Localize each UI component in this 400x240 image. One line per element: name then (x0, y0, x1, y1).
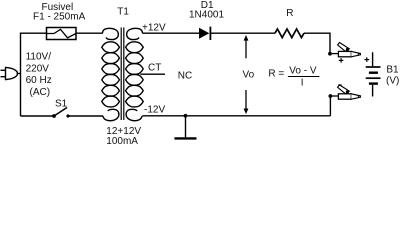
svg-text:S1: S1 (55, 98, 68, 109)
svg-text:T1: T1 (117, 6, 129, 17)
svg-text:Vo - V: Vo - V (289, 66, 317, 77)
svg-text:110V/: 110V/ (26, 52, 52, 63)
svg-text:220V: 220V (26, 63, 50, 74)
svg-text:100mA: 100mA (106, 136, 138, 147)
svg-text:R =: R = (268, 69, 284, 80)
svg-text:60 Hz: 60 Hz (26, 75, 52, 86)
svg-text:F1 - 250mA: F1 - 250mA (33, 12, 86, 23)
svg-text:(V): (V) (386, 75, 399, 86)
svg-text:1N4001: 1N4001 (189, 10, 224, 21)
svg-text:+12V: +12V (142, 22, 166, 33)
svg-text:NC: NC (178, 70, 192, 81)
svg-text:-12V: -12V (144, 104, 165, 115)
svg-text:R: R (286, 8, 293, 19)
svg-text:Vo: Vo (243, 70, 255, 81)
svg-text:B1: B1 (386, 64, 399, 75)
svg-text:CT: CT (148, 63, 161, 74)
svg-text:I: I (301, 78, 304, 89)
svg-text:(AC): (AC) (30, 87, 51, 98)
